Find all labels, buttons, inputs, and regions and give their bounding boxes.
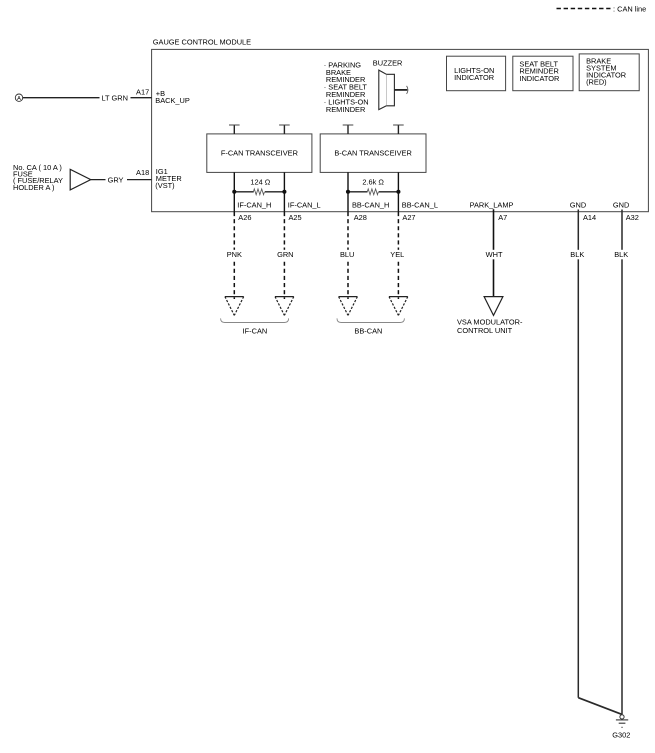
resistor 2.6k ohm <box>348 177 398 194</box>
node VSA modulator-control unit <box>457 317 523 335</box>
svg-text:: CAN line: : CAN line <box>613 5 646 14</box>
arrow out PNK <box>225 297 244 316</box>
arrow out BLU <box>339 297 358 316</box>
svg-text:REMINDER: REMINDER <box>326 105 365 114</box>
svg-text:(RED): (RED) <box>586 77 607 86</box>
fuse No. CA (10 A) <box>13 163 91 192</box>
B-CAN transceiver U2 <box>320 134 426 173</box>
arrow out GRN <box>275 297 294 316</box>
arrow out WHT <box>484 297 503 316</box>
junction dot B-CAN_L <box>396 190 400 194</box>
svg-text:A18: A18 <box>136 168 149 177</box>
connector A <box>15 94 22 102</box>
wire GRY to pin A18 <box>91 168 152 184</box>
junction dot F-CAN_H <box>232 190 236 194</box>
wire GRN dashed CAN <box>275 212 295 299</box>
F-CAN pin stub right <box>279 125 290 134</box>
svg-text:A25: A25 <box>289 213 302 222</box>
svg-text:A7: A7 <box>498 213 507 222</box>
pin A18 label IG1 METER (VST) <box>155 167 181 190</box>
svg-text:BUZZER: BUZZER <box>373 58 403 67</box>
B-CAN pin stub left <box>343 125 354 134</box>
svg-text:BACK_UP: BACK_UP <box>155 96 190 105</box>
F-CAN transceiver U1 <box>207 134 312 173</box>
wire BLK A32 ground run <box>612 210 630 715</box>
brake system indicator (red) box <box>579 54 639 91</box>
svg-text:2.6k Ω: 2.6k Ω <box>362 177 384 186</box>
svg-text:IF-CAN_L: IF-CAN_L <box>288 200 321 209</box>
svg-text:PNK: PNK <box>227 250 242 259</box>
svg-text:LT GRN: LT GRN <box>102 93 128 102</box>
svg-text:INDICATOR: INDICATOR <box>454 73 494 82</box>
wire YEL dashed CAN <box>387 212 407 299</box>
svg-text:PARK_LAMP: PARK_LAMP <box>470 200 514 209</box>
buzzer <box>373 58 408 109</box>
svg-text:A28: A28 <box>354 213 367 222</box>
pin A17 label +B BACK_UP <box>155 89 190 105</box>
svg-text:B-CAN TRANSCEIVER: B-CAN TRANSCEIVER <box>334 148 411 157</box>
gauge control module box <box>152 38 649 212</box>
svg-text:BB-CAN: BB-CAN <box>354 326 382 335</box>
wire BLK A14 ground run <box>568 210 622 715</box>
svg-text:GRY: GRY <box>108 176 124 185</box>
svg-text:A17: A17 <box>136 87 149 96</box>
svg-text:CONTROL UNIT: CONTROL UNIT <box>457 326 513 335</box>
svg-text:IF-CAN: IF-CAN <box>243 326 268 335</box>
svg-text:HOLDER A ): HOLDER A ) <box>13 183 54 192</box>
reminder function list <box>324 60 369 113</box>
svg-text:WHT: WHT <box>486 250 503 259</box>
svg-text:124 Ω: 124 Ω <box>250 177 270 186</box>
legend: CAN line dashed sample <box>557 5 647 14</box>
svg-text:YEL: YEL <box>390 250 404 259</box>
svg-text:BB-CAN_L: BB-CAN_L <box>402 200 438 209</box>
arrow out YEL <box>389 297 408 316</box>
wire F-CAN low leg <box>283 172 285 212</box>
junction dot F-CAN_L <box>282 190 286 194</box>
svg-text:A32: A32 <box>626 213 639 222</box>
lights-on indicator box <box>447 56 506 90</box>
svg-text:IF-CAN_H: IF-CAN_H <box>237 200 271 209</box>
svg-text:A: A <box>17 96 21 102</box>
svg-text:F-CAN TRANSCEIVER: F-CAN TRANSCEIVER <box>221 148 298 157</box>
wire WHT PARK_LAMP <box>484 209 504 296</box>
B-CAN pin stub right <box>393 125 404 134</box>
bracket IF-CAN <box>221 318 289 335</box>
svg-text:BLU: BLU <box>340 250 354 259</box>
svg-text:GND: GND <box>613 200 629 209</box>
svg-text:INDICATOR: INDICATOR <box>519 74 559 83</box>
svg-text:BB-CAN_H: BB-CAN_H <box>352 200 389 209</box>
resistor 124 ohm <box>234 177 284 194</box>
svg-text:GAUGE CONTROL MODULE: GAUGE CONTROL MODULE <box>153 38 251 47</box>
wire F-CAN high leg <box>233 172 235 212</box>
wire PNK dashed CAN <box>224 212 244 299</box>
wire B-CAN high leg <box>347 172 349 212</box>
svg-text:(VST): (VST) <box>155 181 174 190</box>
svg-text:BLK: BLK <box>614 250 628 259</box>
F-CAN pin stub left <box>229 125 240 134</box>
svg-text:G302: G302 <box>612 730 630 739</box>
junction dot B-CAN_H <box>346 190 350 194</box>
svg-text:A14: A14 <box>583 213 596 222</box>
svg-text:A26: A26 <box>238 213 251 222</box>
svg-text:GRN: GRN <box>277 250 293 259</box>
svg-text:A27: A27 <box>402 213 415 222</box>
svg-text:VSA MODULATOR-: VSA MODULATOR- <box>457 317 523 326</box>
svg-text:BLK: BLK <box>570 250 584 259</box>
svg-text:GND: GND <box>570 200 586 209</box>
ground G302 <box>612 715 630 740</box>
wire LT GRN to pin A17 <box>23 87 152 102</box>
wire B-CAN low leg <box>397 172 399 212</box>
bracket BB-CAN <box>337 318 404 335</box>
wire BLU dashed CAN <box>337 212 357 299</box>
seat belt reminder indicator box <box>513 56 573 90</box>
